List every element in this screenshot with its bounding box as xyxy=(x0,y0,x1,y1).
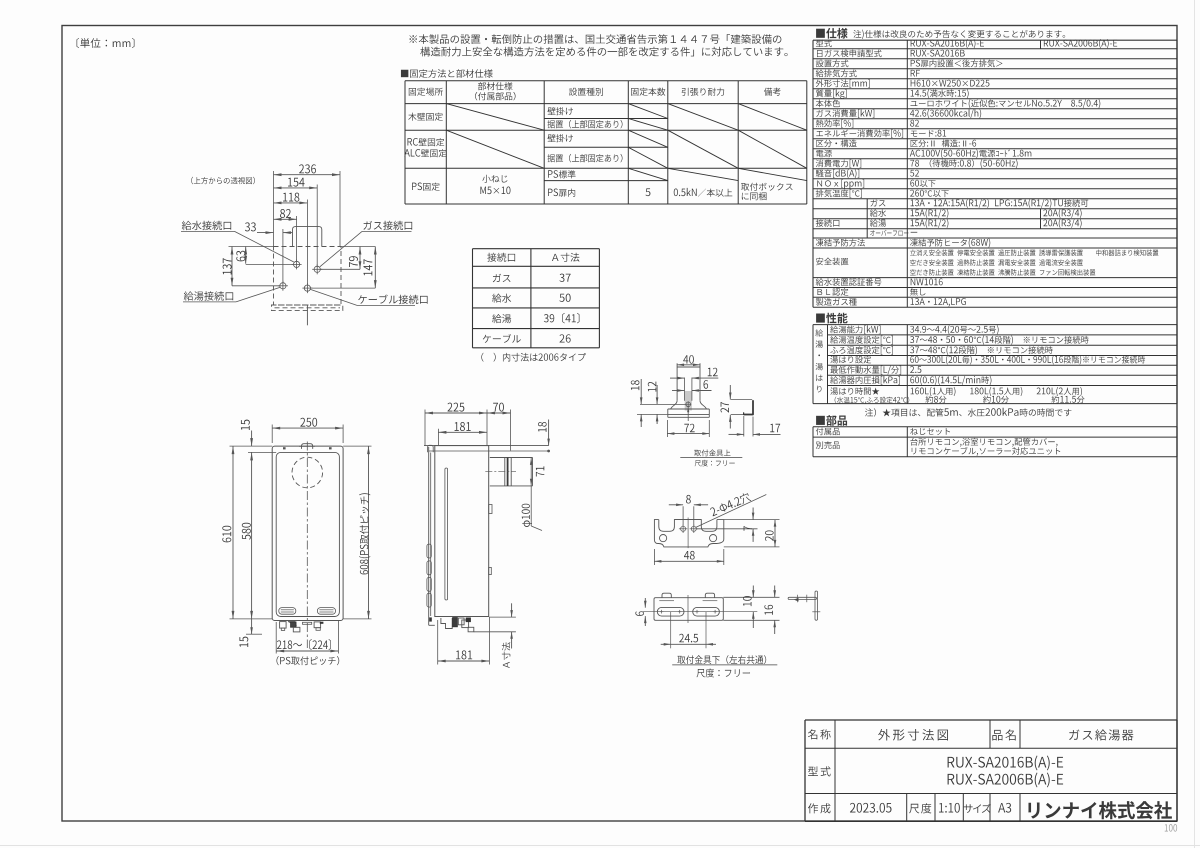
dim 18 xyxy=(548,420,550,446)
big holes xyxy=(660,535,667,542)
dim 16 xyxy=(723,619,779,621)
dim 48 xyxy=(653,549,655,565)
dim A / exts xyxy=(489,616,516,618)
right edge latches xyxy=(489,505,492,514)
spec table xyxy=(813,39,1177,41)
top slot marks xyxy=(283,447,286,449)
dim 118 xyxy=(274,202,308,204)
paper edge shadow xyxy=(1194,0,1196,848)
fixing-methods table xyxy=(404,81,406,204)
dim 20 xyxy=(724,519,780,521)
connection ports (circle-cross) xyxy=(294,261,300,267)
centreline xyxy=(306,442,308,649)
dim 15 top / 580 / 15 bottom (x=251.6) xyxy=(251,431,253,447)
top face lines xyxy=(424,445,549,447)
dim 72 xyxy=(666,420,668,437)
bottom fittings xyxy=(280,622,287,629)
dim 12 (slot) xyxy=(670,377,685,379)
front view body xyxy=(272,446,343,620)
dim 250 xyxy=(272,427,343,429)
top view: bottom flange dashed xyxy=(272,305,343,311)
upper bracket caption xyxy=(694,449,730,456)
parts table xyxy=(813,426,1177,428)
dim 17 xyxy=(743,416,745,437)
small holes 2-phi4.2 xyxy=(681,526,686,531)
spec table text xyxy=(816,40,832,48)
top view: body dashed outline xyxy=(274,247,342,306)
side bottom fittings xyxy=(441,618,452,629)
dim 7 xyxy=(696,528,757,530)
dim 608 PS pitch xyxy=(368,446,370,619)
dim 27 xyxy=(729,385,731,400)
upper bracket side view xyxy=(731,399,753,401)
dim 40 xyxy=(677,364,700,366)
dim 6 xyxy=(672,390,685,392)
fixing table text xyxy=(409,88,443,96)
A-dimension table xyxy=(472,249,474,348)
dim 225 / 70 xyxy=(425,412,487,414)
top view labels xyxy=(191,177,255,184)
spec section title xyxy=(816,28,848,39)
centrelines xyxy=(687,595,689,623)
unit note xyxy=(77,38,135,48)
leader cable xyxy=(357,304,415,306)
diagonal N/A strokes xyxy=(446,104,544,131)
fixing table title xyxy=(401,69,493,78)
lower bracket side profile xyxy=(788,597,816,599)
tabs on top xyxy=(662,593,671,598)
top view: pipe recess box xyxy=(293,227,322,247)
centre screw xyxy=(686,402,691,407)
dim 8 xyxy=(682,506,684,526)
performance table text xyxy=(815,329,823,336)
dim 154 xyxy=(274,187,318,189)
dim 79 + 147 right xyxy=(341,246,375,248)
top hanger tab xyxy=(302,444,313,449)
shoulders + flange xyxy=(671,401,678,409)
compliance note xyxy=(409,34,781,44)
exhaust duct xyxy=(490,457,533,459)
dim 6 (slot height) xyxy=(644,598,646,608)
parts section xyxy=(816,415,847,426)
dim 181 top xyxy=(438,431,487,433)
side slots xyxy=(445,468,448,600)
leader water xyxy=(181,230,235,232)
A-dim table text xyxy=(487,253,515,262)
lower bracket piece 1 (plate with holes) xyxy=(654,520,723,547)
dim 10 xyxy=(723,596,779,598)
dim 610 (x=233) xyxy=(232,446,234,619)
dim 218-224 xyxy=(275,622,277,654)
title block text xyxy=(808,729,831,739)
side view body xyxy=(435,446,489,617)
performance table xyxy=(813,324,1177,326)
performance section xyxy=(816,313,848,324)
caption underline xyxy=(680,457,742,459)
lower bracket piece 2 (slotted bar) xyxy=(654,598,723,621)
upper bracket front view xyxy=(676,363,678,401)
title block xyxy=(805,719,1177,721)
centreline xyxy=(687,518,689,549)
duct dims: 71 phi100 xyxy=(530,458,532,526)
dim 181 bottom xyxy=(437,620,439,665)
slots xyxy=(657,607,684,616)
vents xyxy=(279,608,296,615)
dim 82 xyxy=(274,218,297,220)
2-phi4.2 leader xyxy=(696,495,767,528)
back mounting plate xyxy=(428,447,430,625)
leader hot water xyxy=(183,301,236,303)
slot lines + grey fill xyxy=(685,391,692,411)
dims 18 / 12 left xyxy=(640,403,686,405)
dim 63 + 137 verticals xyxy=(231,247,233,286)
dim 236 xyxy=(274,174,341,176)
caption underline xyxy=(672,664,777,666)
top view centreline below body xyxy=(306,305,308,325)
dim 33 xyxy=(257,232,274,234)
leader gas xyxy=(362,230,412,232)
front ext lines xyxy=(230,445,273,447)
lower bracket caption xyxy=(677,655,766,664)
exhaust dashed circle xyxy=(292,457,323,488)
dim 24.5 xyxy=(661,643,671,645)
